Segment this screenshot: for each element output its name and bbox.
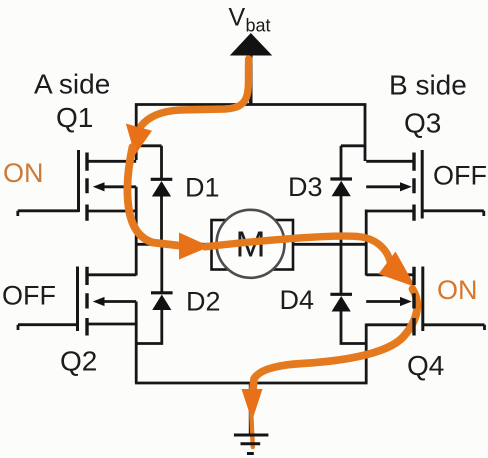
label Vbat	[229, 4, 271, 36]
svg-text:B side: B side	[389, 70, 467, 101]
wire right rail lower	[365, 324, 368, 384]
ground	[234, 435, 269, 454]
svg-text:Q4: Q4	[407, 350, 444, 381]
wire D4 branch	[341, 243, 367, 344]
wire current path Q1 to motor (orange)	[127, 147, 183, 246]
svg-text:bat: bat	[246, 16, 271, 36]
power symbol Vbat arrow	[230, 33, 272, 56]
wire current path motor to Q4 (orange)	[205, 236, 391, 263]
wire current path Vbat to Q1 (orange)	[141, 59, 249, 126]
svg-text:A side: A side	[34, 69, 110, 100]
wire left rail lower	[135, 323, 138, 384]
diode D3	[330, 179, 352, 196]
wire D1 branch	[136, 146, 161, 245]
svg-text:D2: D2	[186, 287, 221, 317]
svg-text:Q2: Q2	[60, 346, 97, 377]
wire right mid rail	[365, 210, 368, 276]
transistor Q1	[79, 150, 105, 221]
wire right rail upper	[364, 104, 367, 162]
diode D2	[151, 293, 173, 310]
wire ground stub	[249, 383, 252, 434]
svg-text:D1: D1	[185, 173, 220, 203]
wire motor row left	[135, 243, 213, 246]
wire Q2 source lead	[88, 323, 136, 326]
wire left mid rail	[135, 210, 138, 276]
node Vbat stub	[249, 54, 253, 104]
node current arrowhead at motor	[179, 233, 210, 260]
wire Q3 body lead	[366, 185, 402, 188]
node current arrowhead at Q1	[126, 124, 152, 156]
svg-text:D4: D4	[280, 285, 315, 315]
wire D2 branch	[135, 243, 162, 344]
svg-text:Q1: Q1	[56, 102, 93, 133]
diode D1	[151, 179, 173, 196]
wire Q1 body lead	[101, 187, 136, 211]
transistor Q4	[400, 267, 423, 336]
wire bottom rail	[135, 382, 368, 385]
wire Q2 body lead	[101, 302, 136, 325]
wire Q4 drain lead	[366, 273, 414, 276]
node current arrowhead at Q4	[379, 252, 416, 288]
wire Q4 gate lead	[423, 325, 485, 330]
wire Q2 gate lead	[18, 325, 78, 330]
wire Q2 drain lead	[88, 273, 136, 276]
transistor Q3	[400, 150, 422, 221]
wire Q3 source lead	[366, 210, 414, 213]
diode D4	[330, 294, 352, 311]
svg-text:ON: ON	[3, 158, 44, 188]
svg-text:D3: D3	[288, 172, 323, 202]
wire Q1 gate lead	[18, 211, 79, 216]
wire D3 branch	[341, 146, 366, 245]
wire motor row right	[291, 243, 368, 246]
wire Q3 drain lead	[366, 160, 414, 163]
wire Q3 gate lead	[422, 211, 484, 216]
svg-text:Q3: Q3	[404, 108, 441, 139]
wire current path Q4 to ground (orange)	[253, 289, 417, 391]
svg-text:ON: ON	[437, 275, 478, 305]
wire top rail	[135, 103, 366, 106]
wire Q1 drain lead	[88, 160, 136, 163]
svg-text:OFF: OFF	[433, 161, 487, 191]
node current arrowhead at ground	[242, 389, 263, 421]
transistor Q2	[78, 267, 105, 336]
wire Q4 source lead	[366, 323, 414, 326]
svg-text:OFF: OFF	[2, 281, 56, 311]
svg-text:V: V	[229, 4, 246, 32]
wire Q1 source lead	[88, 210, 136, 213]
wire current tail into ground (orange)	[251, 414, 253, 447]
motor M	[212, 210, 294, 278]
wire Q4 body lead	[366, 300, 402, 303]
wire left rail upper	[135, 104, 138, 161]
